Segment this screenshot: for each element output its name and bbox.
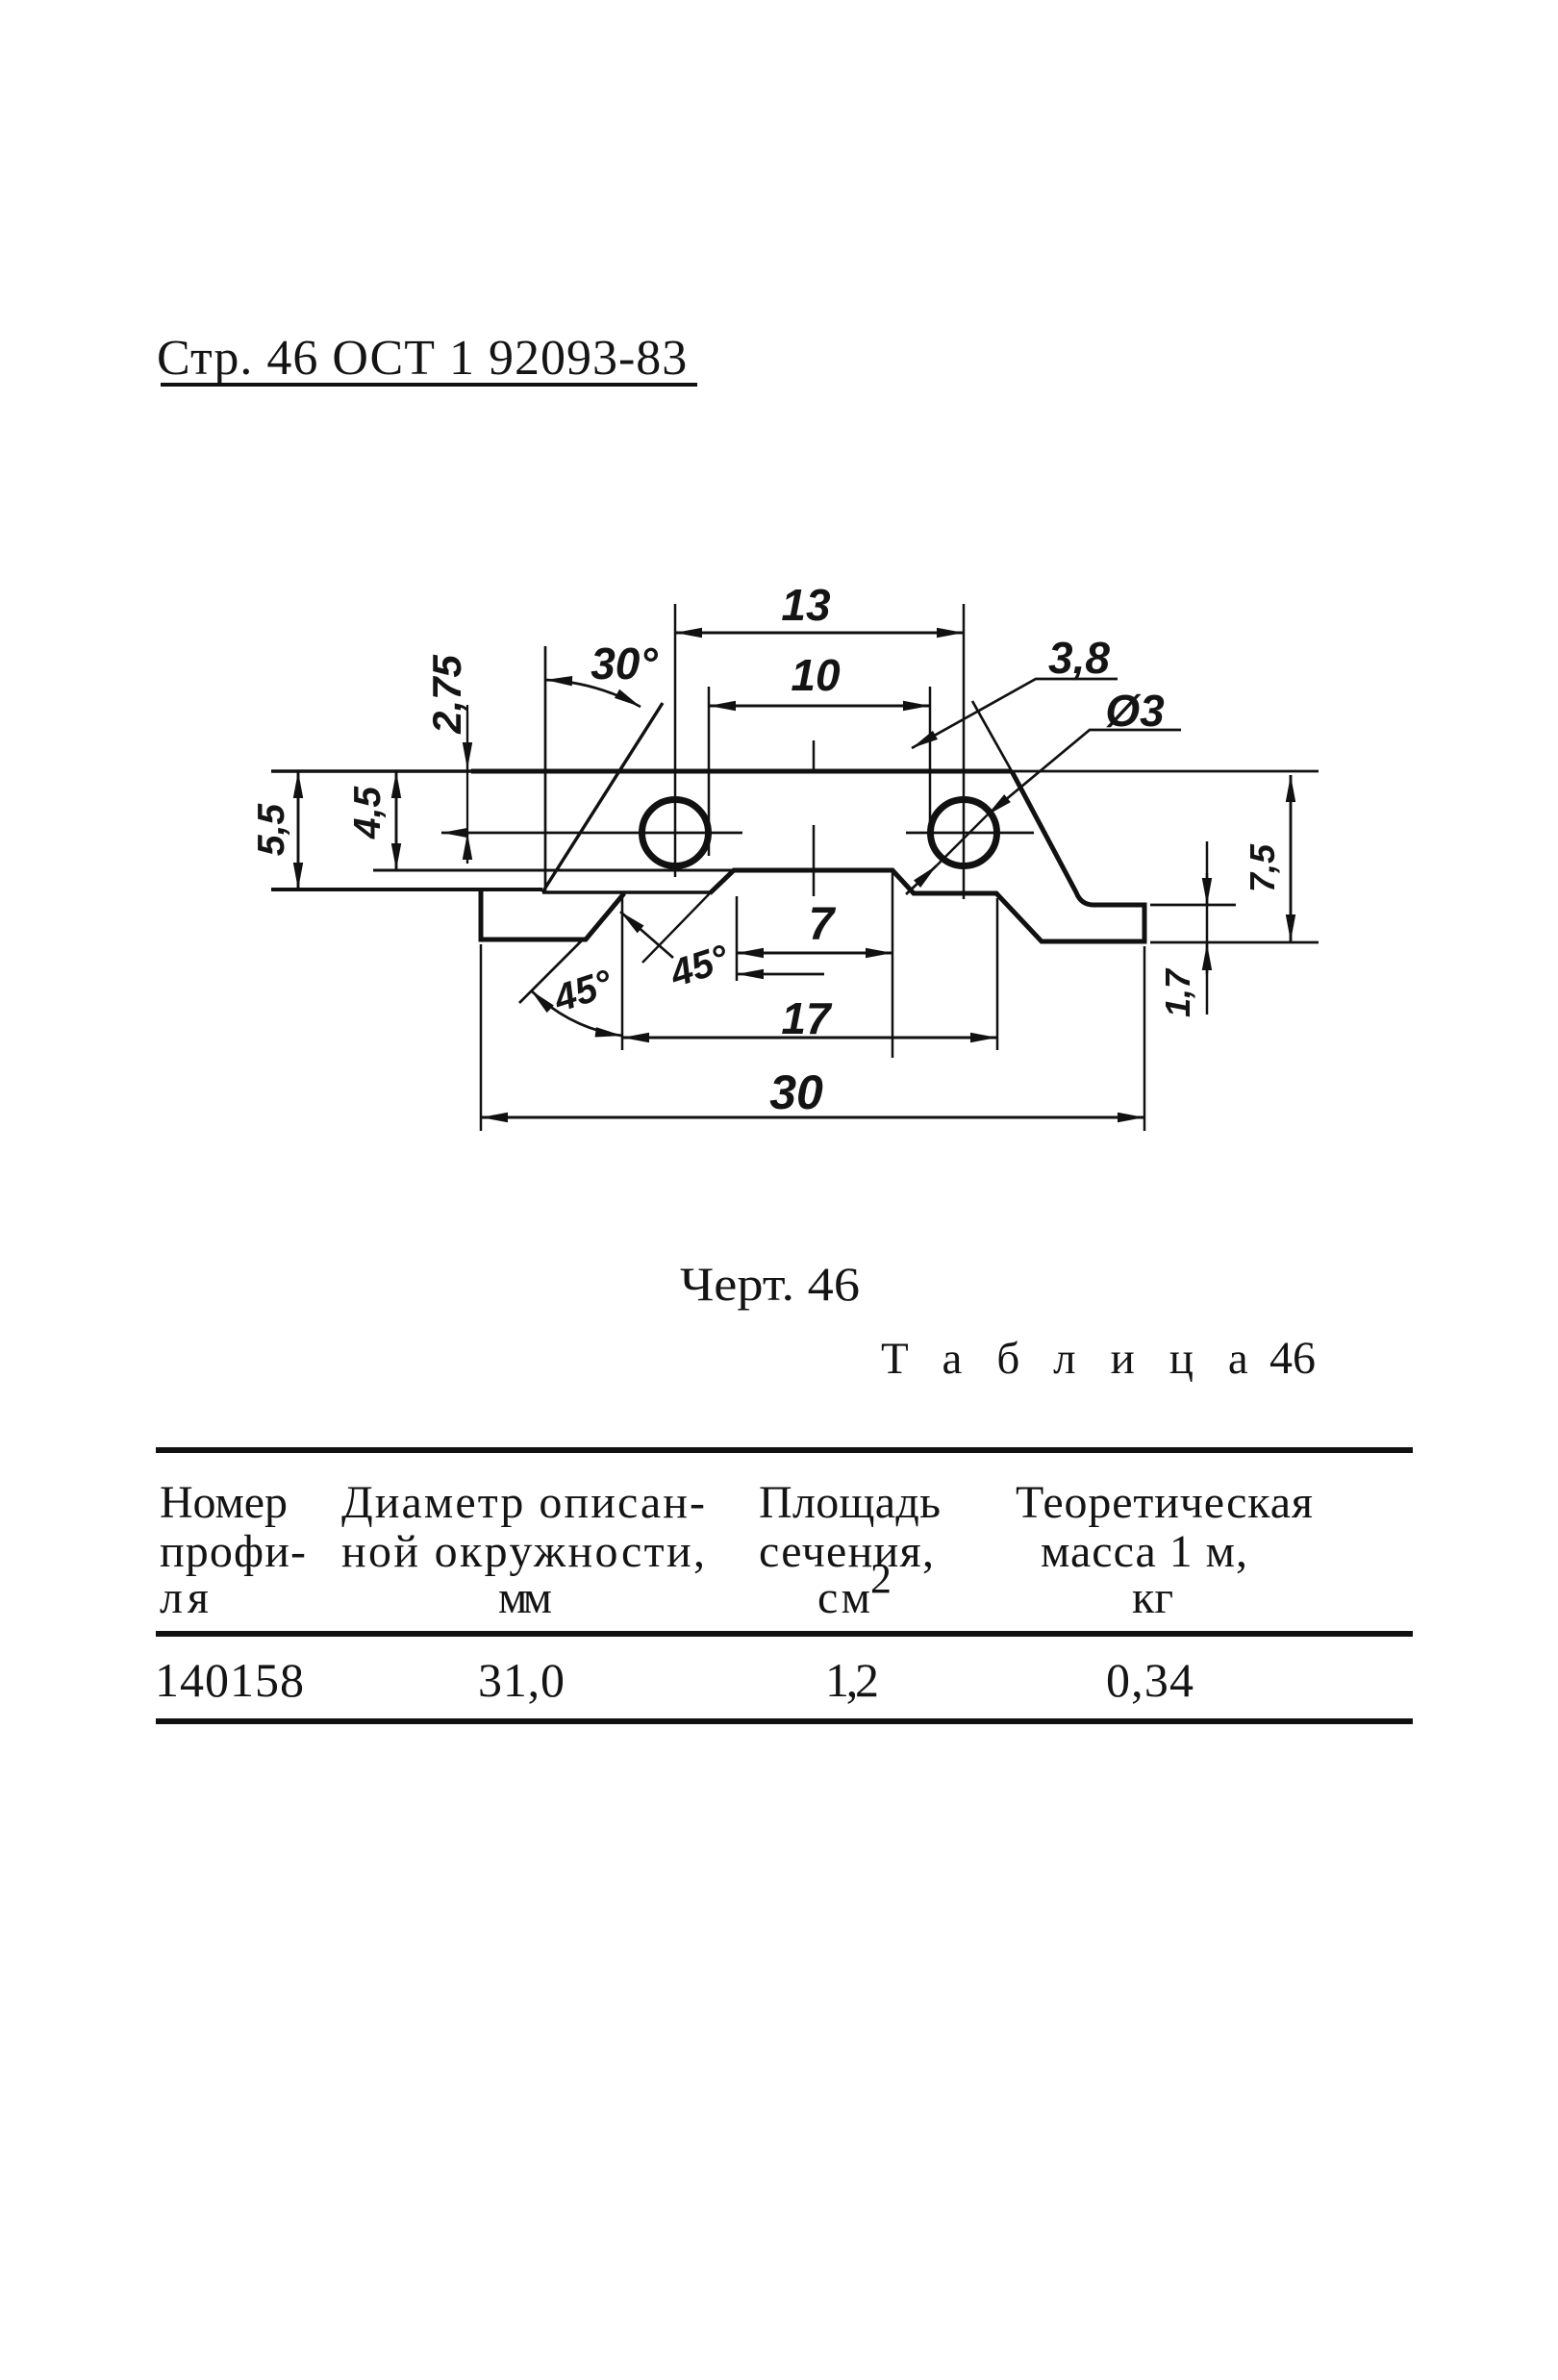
svg-text:140158: 140158 xyxy=(155,1653,304,1707)
svg-text:4,5: 4,5 xyxy=(347,786,389,840)
svg-text:17: 17 xyxy=(781,993,833,1043)
svg-text:Диаметр описан-: Диаметр описан- xyxy=(341,1477,705,1528)
svg-text:Номер: Номер xyxy=(160,1477,288,1528)
svg-text:ля: ля xyxy=(160,1572,209,1623)
svg-text:30: 30 xyxy=(769,1065,823,1119)
svg-text:Ø3: Ø3 xyxy=(1105,686,1165,736)
svg-text:масса 1 м,: масса 1 м, xyxy=(1041,1526,1247,1577)
svg-text:1,2: 1,2 xyxy=(825,1653,879,1707)
svg-text:46: 46 xyxy=(1269,1333,1316,1384)
svg-text:см: см xyxy=(817,1572,870,1623)
svg-text:Черт. 46: Черт. 46 xyxy=(680,1257,860,1311)
svg-text:ной окружности,: ной окружности, xyxy=(341,1526,705,1577)
svg-text:5,5: 5,5 xyxy=(251,803,292,857)
svg-text:мм: мм xyxy=(498,1572,552,1623)
svg-text:сечения,: сечения, xyxy=(759,1526,934,1577)
svg-text:кг: кг xyxy=(1132,1572,1173,1623)
svg-text:45°: 45° xyxy=(665,937,735,995)
svg-text:45°: 45° xyxy=(548,962,618,1020)
svg-text:Таблица: Таблица xyxy=(881,1334,1283,1384)
svg-text:7,5: 7,5 xyxy=(1243,843,1282,892)
svg-text:Теоретическая: Теоретическая xyxy=(1016,1477,1313,1528)
svg-text:7: 7 xyxy=(809,899,837,950)
svg-text:10: 10 xyxy=(791,650,841,700)
svg-text:профи-: профи- xyxy=(160,1526,306,1577)
svg-text:0,34: 0,34 xyxy=(1106,1653,1194,1707)
svg-text:30°: 30° xyxy=(591,639,658,689)
svg-text:1,7: 1,7 xyxy=(1158,967,1197,1017)
svg-text:Стр. 46 ОСТ 1 92093-83: Стр. 46 ОСТ 1 92093-83 xyxy=(157,331,688,386)
svg-text:31,0: 31,0 xyxy=(478,1653,565,1707)
svg-text:3,8: 3,8 xyxy=(1048,633,1110,683)
svg-text:2: 2 xyxy=(870,1555,892,1602)
svg-text:13: 13 xyxy=(781,580,831,630)
svg-text:2,75: 2,75 xyxy=(424,654,469,734)
svg-text:Площадь: Площадь xyxy=(759,1477,941,1528)
